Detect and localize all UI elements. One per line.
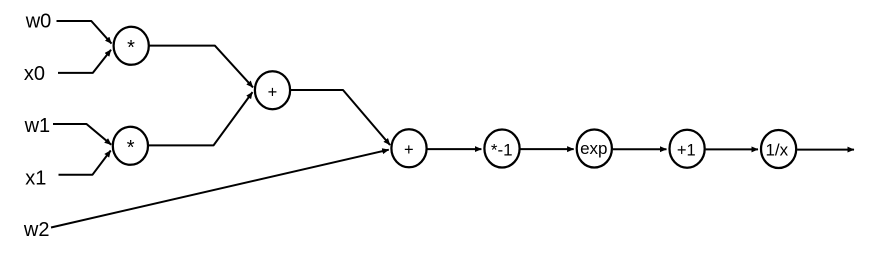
svg-text:+1: +1 — [677, 141, 696, 159]
input label w1 — [24, 115, 51, 137]
svg-text:x0: x0 — [24, 63, 45, 85]
node multiply2 (*) — [113, 127, 148, 165]
wire *-1 to exp node — [521, 148, 574, 150]
input label x0 — [24, 63, 45, 85]
wire multiply2 to plus node 1 — [148, 92, 253, 145]
input label w2 — [23, 219, 50, 241]
wire x1 to multiply node 2 — [59, 151, 111, 175]
node 1/x — [761, 130, 796, 168]
svg-text:w2: w2 — [23, 219, 50, 241]
svg-text:*: * — [127, 37, 135, 59]
svg-text:*: * — [127, 137, 135, 159]
svg-text:exp: exp — [580, 139, 607, 158]
node multiply1 (*) — [114, 27, 149, 65]
node plus2 (+) — [391, 129, 426, 167]
svg-text:w1: w1 — [24, 115, 51, 137]
svg-text:+: + — [268, 83, 278, 101]
svg-text:1/x: 1/x — [765, 141, 788, 160]
node plus1 (+) — [255, 71, 290, 109]
svg-text:*-1: *-1 — [491, 141, 513, 160]
svg-text:w0: w0 — [25, 11, 52, 33]
node +1 — [670, 130, 705, 168]
wire x0 to multiply node 1 — [58, 50, 111, 73]
input label w0 — [25, 11, 52, 33]
wire plus2 to *-1 node — [428, 148, 482, 150]
wire plus1 to plus node 2 — [290, 90, 390, 145]
input label x1 — [25, 167, 46, 189]
wire 1/x to output — [797, 149, 854, 151]
node *-1 — [484, 130, 519, 168]
wire w2 to plus node 2 — [51, 150, 389, 228]
wire exp to +1 node — [613, 148, 667, 150]
wire multiply1 to plus node 1 — [149, 46, 253, 88]
svg-text:x1: x1 — [25, 167, 46, 189]
svg-text:+: + — [404, 141, 414, 159]
node exp — [577, 130, 612, 168]
wire w1 to multiply node 2 — [53, 124, 111, 145]
wire +1 to 1/x node — [706, 148, 758, 150]
wire w0 to multiply node 1 — [57, 21, 112, 44]
